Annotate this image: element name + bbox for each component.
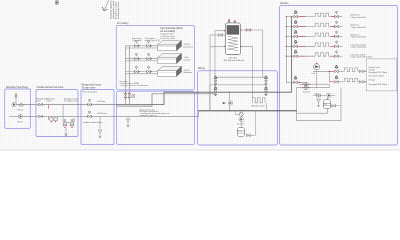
svg-text:P=1.5: P=1.5 bbox=[238, 130, 243, 132]
svg-text:Pump W: Pump W bbox=[303, 92, 310, 94]
svg-text:outside isolation valves: outside isolation valves bbox=[83, 121, 102, 124]
svg-text:6 loops Norma PEX 20mm: 6 loops Norma PEX 20mm bbox=[351, 56, 373, 59]
svg-text:6 loops 16mm MLC: 6 loops 16mm MLC bbox=[351, 47, 368, 49]
svg-text:300l Tank with DHW coil: 300l Tank with DHW coil bbox=[224, 59, 245, 62]
svg-text:Downstairs slab S: Downstairs slab S bbox=[369, 74, 385, 77]
svg-text:Membrane pipe: Membrane pipe bbox=[252, 105, 265, 108]
svg-text:Monobloc Heat Pump: Monobloc Heat Pump bbox=[6, 86, 29, 89]
svg-text:Downstairs: Downstairs bbox=[184, 45, 193, 48]
svg-text:P-do: P-do bbox=[312, 73, 316, 75]
svg-text:meter: meter bbox=[36, 100, 41, 103]
svg-text:Vaco sel: Vaco sel bbox=[237, 123, 244, 125]
svg-text:valves (1 per FCU): valves (1 per FCU) bbox=[145, 40, 160, 42]
svg-text:HP out: HP out bbox=[18, 109, 24, 112]
svg-text:6 loops: 6 loops bbox=[369, 70, 375, 72]
svg-text:2 loops 16mm MLC: 2 loops 16mm MLC bbox=[351, 27, 368, 29]
svg-text:HP Flow: HP Flow bbox=[98, 101, 106, 103]
svg-text:Mixing: Mixing bbox=[198, 68, 205, 70]
svg-text:2 loops 16mm MLC: 2 loops 16mm MLC bbox=[351, 17, 368, 19]
svg-text:Bedrooms: Bedrooms bbox=[184, 71, 193, 74]
svg-text:For cooling:: For cooling: bbox=[120, 81, 129, 83]
svg-text:for air cooling: for air cooling bbox=[161, 30, 176, 33]
svg-text:Upstairs: Upstairs bbox=[184, 58, 191, 61]
svg-text:Outside behind heat pump: Outside behind heat pump bbox=[37, 86, 65, 89]
svg-text:of outdoor circuit: of outdoor circuit bbox=[64, 100, 78, 103]
svg-text:Normpipe PEX 20mm: Normpipe PEX 20mm bbox=[369, 71, 388, 74]
svg-text:HP Return: HP Return bbox=[98, 112, 107, 115]
svg-text:To plant room: To plant room bbox=[82, 87, 96, 90]
svg-text:P=1: P=1 bbox=[324, 104, 327, 106]
svg-text:HP ret: HP ret bbox=[18, 120, 24, 123]
svg-text:Upstairs: Upstairs bbox=[280, 2, 289, 5]
svg-text:Normpipe PEX 20mm: Normpipe PEX 20mm bbox=[369, 83, 388, 86]
svg-text:to all of the cooler: to all of the cooler bbox=[161, 37, 176, 40]
svg-text:2 loops 16mm MLC: 2 loops 16mm MLC bbox=[351, 37, 368, 39]
svg-text:Piping inside house: Piping inside house bbox=[82, 85, 103, 87]
svg-text:My tap water is small: My tap water is small bbox=[140, 108, 156, 111]
svg-text:75mm ID IQ pipes: 75mm ID IQ pipes bbox=[82, 92, 97, 94]
svg-text:Air Cooling: Air Cooling bbox=[117, 22, 129, 25]
svg-text:6 loops: 6 loops bbox=[369, 80, 375, 82]
svg-text:to all pumps valves: to all pumps valves bbox=[117, 2, 120, 19]
svg-text:valves: valves bbox=[46, 101, 51, 103]
